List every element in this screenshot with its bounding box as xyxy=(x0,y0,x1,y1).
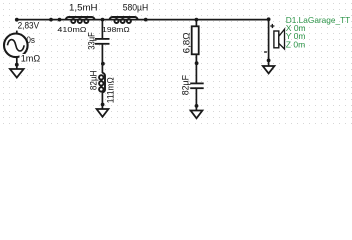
svg-text:1,5mH: 1,5mH xyxy=(69,3,98,13)
junction node3 xyxy=(101,62,105,66)
svg-text:2,83V: 2,83V xyxy=(18,21,40,31)
wire main horizontal rail xyxy=(17,19,269,21)
svg-text:0s: 0s xyxy=(26,35,35,45)
wire R1 to C2 xyxy=(195,54,197,83)
junction L2-right xyxy=(144,18,148,22)
svg-text:111mΩ: 111mΩ xyxy=(105,77,115,103)
inductor L2 580µH coil xyxy=(109,17,138,23)
label 198mΩ xyxy=(101,25,131,34)
wire source top lead xyxy=(16,20,18,35)
label - (minus) xyxy=(264,51,267,53)
svg-text:198mΩ: 198mΩ xyxy=(102,25,130,34)
svg-text:1mΩ: 1mΩ xyxy=(21,54,41,64)
ground G2 xyxy=(97,109,109,117)
label 1mΩ xyxy=(20,54,42,63)
junction source-gnd xyxy=(15,63,19,67)
speaker D1 driver rect xyxy=(274,31,279,48)
svg-text:33µF: 33µF xyxy=(86,32,96,50)
wire source bottom lead xyxy=(16,57,18,70)
label + (plus) xyxy=(270,24,274,28)
wire speaker drop xyxy=(268,20,270,67)
junction R1-top xyxy=(195,18,199,22)
ground G4 xyxy=(191,111,203,119)
speaker D1 cone xyxy=(279,29,285,49)
junction C2-gnd xyxy=(195,104,199,108)
wire L3 to gnd xyxy=(101,92,103,109)
junction W1 xyxy=(49,18,53,22)
voltage source V1 circle xyxy=(4,34,28,58)
svg-text:410mΩ: 410mΩ xyxy=(57,25,87,34)
svg-text:82µF: 82µF xyxy=(180,75,190,96)
junction spk-gnd xyxy=(267,59,271,63)
label 410mΩ xyxy=(56,25,87,34)
label 580µH xyxy=(122,3,150,12)
resistor R1 6,8Ω xyxy=(192,26,199,54)
wire C1 branch top xyxy=(101,20,103,39)
ground G3 xyxy=(263,66,275,73)
junction node2 xyxy=(101,18,105,22)
sine wave xyxy=(7,40,24,51)
junction L3-gnd xyxy=(101,103,105,107)
junction spk-corner xyxy=(267,17,271,21)
junction L1-left xyxy=(58,18,62,22)
svg-text:Z 0m: Z 0m xyxy=(286,39,305,49)
wire C2 to gnd xyxy=(195,88,197,111)
wire C1 to L3 xyxy=(101,44,103,73)
ground G1 xyxy=(10,69,24,78)
svg-text:580µH: 580µH xyxy=(123,3,149,13)
capacitor C1 33µF plates xyxy=(95,39,110,44)
label 2,83V xyxy=(15,22,42,31)
junction source-top xyxy=(15,18,19,22)
svg-text:82µH: 82µH xyxy=(89,71,99,91)
svg-text:6,8Ω: 6,8Ω xyxy=(182,32,192,53)
inductor L1 1,5mH coil xyxy=(66,17,95,23)
label 1,5mH xyxy=(68,3,99,12)
inductor L3 82µH coil xyxy=(99,73,105,93)
capacitor C2 82µF plates xyxy=(190,83,204,88)
junction node4 xyxy=(195,61,199,65)
wire R1 top lead xyxy=(195,20,197,27)
